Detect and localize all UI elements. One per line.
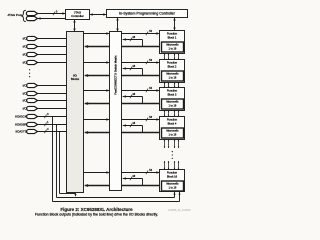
- JTAG pad TDO: [26, 16, 37, 20]
- wire: FB2 feedback to Switch Matrix (18): [142, 69, 144, 76]
- wire: GSR bottom wrap to Function Block 16: [57, 197, 175, 199]
- macrocells of FB4: [162, 128, 184, 138]
- svg-text:FastCONNECT II Switch Matrix: FastCONNECT II Switch Matrix: [113, 55, 117, 95]
- wire: FB3 feedback to Switch Matrix (18): [142, 97, 144, 104]
- function block FB1: [160, 31, 185, 54]
- svg-text:1 to 18: 1 to 18: [169, 186, 177, 190]
- wire: FB4 feedback to Switch Matrix (18): [142, 126, 144, 133]
- svg-text:Macrocells: Macrocells: [166, 72, 179, 76]
- wire: programming bus verticals gap 3: [164, 111, 166, 117]
- svg-text:Function: Function: [167, 61, 178, 65]
- svg-text:Controller: Controller: [71, 14, 84, 18]
- wire: I/O/GCK to I/O Blocks: [38, 116, 67, 118]
- svg-text:Block 3: Block 3: [168, 92, 177, 96]
- svg-text:Block 1: Block 1: [168, 35, 177, 39]
- macrocells of FB2: [162, 71, 184, 81]
- svg-text:In-System Programming Controll: In-System Programming Controller: [119, 12, 176, 16]
- wire: FB1 feedback to Switch Matrix (18): [142, 40, 144, 47]
- svg-text:Block 4: Block 4: [168, 121, 177, 125]
- ellipsis between I/O pin groups: [29, 69, 30, 70]
- wire: I/O/GSR vertical drop: [56, 125, 58, 198]
- wire: FB2 bold output to I/O Blocks: [122, 75, 160, 77]
- svg-text:I/O/GTS: I/O/GTS: [15, 130, 26, 134]
- wire: JTAG Controller to ISP Controller (bidirectional): [90, 14, 107, 16]
- macrocells of FB16: [162, 181, 184, 191]
- svg-text:Function: Function: [167, 118, 178, 122]
- wire: ISP Controller to Switch Matrix (bidirectional): [117, 18, 119, 32]
- svg-text:I/O/GCK: I/O/GCK: [15, 115, 28, 119]
- wire: programming bus verticals gap 4: [164, 140, 166, 149]
- wire: TDO from JTAG Controller to pad: [37, 18, 65, 20]
- wire: programming bus verticals gap 2: [164, 83, 166, 88]
- svg-text:1 to 18: 1 to 18: [169, 76, 177, 80]
- wire: programming bus verticals gap 1: [164, 54, 166, 60]
- svg-text:Blocks: Blocks: [71, 77, 80, 81]
- FastCONNECT II Switch Matrix: [110, 32, 122, 191]
- wire: FB1 bold output to I/O Blocks: [122, 46, 160, 48]
- macrocells of FB1: [162, 42, 184, 52]
- svg-text:Function: Function: [167, 171, 178, 175]
- svg-text:1 to 18: 1 to 18: [169, 133, 177, 137]
- wire: I/O/GTS vertical drop: [59, 132, 61, 194]
- wire: GCK bottom wrap to Function Block 16: [53, 201, 180, 203]
- macrocells of FB3: [162, 99, 184, 109]
- wire: I/O Blocks to Switch Matrix (FB3 row): [84, 90, 110, 92]
- svg-text:I/O/GSR: I/O/GSR: [15, 123, 27, 127]
- function block FB2: [160, 60, 185, 83]
- svg-text:Macrocells: Macrocells: [166, 100, 179, 104]
- wire: FB16 bold output to I/O Blocks: [122, 185, 160, 187]
- wire: I/O/GCK vertical drop: [52, 117, 54, 202]
- wire: Switch Matrix to FB1 (54): [122, 33, 160, 35]
- svg-text:Macrocells: Macrocells: [166, 182, 179, 186]
- JTAG pad TCK/TMS/TDI: [26, 11, 37, 15]
- svg-text:Function: Function: [167, 32, 178, 36]
- wire: JTAG pads to JTAG Controller (3): [37, 13, 65, 15]
- wire: GTS bottom wrap to I/O Blocks: [60, 193, 76, 195]
- JTAG Controller U1: [66, 10, 90, 20]
- svg-text:Function Block outputs (indica: Function Block outputs (indicated by the…: [35, 213, 158, 217]
- wire: FB4 bold output to I/O Blocks: [122, 132, 160, 134]
- wire: programming bus verticals gap 5: [164, 161, 166, 170]
- wire: JTAG Controller to I/O Blocks (bidirectional): [74, 20, 76, 32]
- JTAG Port brace: [22, 10, 26, 21]
- wire: I/O Blocks to Switch Matrix (FB2 row): [84, 62, 110, 64]
- function block FB3: [160, 88, 185, 111]
- svg-text:DS055_02_110300: DS055_02_110300: [168, 208, 191, 212]
- svg-text:Function: Function: [167, 89, 178, 93]
- wire: I/O/GSR to I/O Blocks: [38, 124, 67, 126]
- wire: Switch Matrix to FB4 (54): [122, 119, 160, 121]
- svg-text:Block 16: Block 16: [167, 174, 178, 178]
- wire: FB16 feedback to Switch Matrix (18): [142, 179, 144, 186]
- wire: I/O Blocks to Switch Matrix (FB1 row): [84, 33, 110, 35]
- svg-text:Macrocells: Macrocells: [166, 129, 179, 133]
- wire: FB3 bold output to I/O Blocks: [122, 103, 160, 105]
- wire: I/O Blocks to Switch Matrix (FB4 row): [84, 119, 110, 121]
- svg-text:1 to 18: 1 to 18: [169, 47, 177, 51]
- svg-text:Figure 2: XC95288XL Architect: Figure 2: XC95288XL Architecture: [60, 207, 133, 212]
- wire: Switch Matrix to FB2 (54): [122, 62, 160, 64]
- ellipsis between FB4 and FB16: [172, 151, 173, 152]
- svg-text:JTAG Port: JTAG Port: [7, 13, 21, 17]
- In-System Programming Controller U2: [107, 10, 188, 18]
- svg-text:Macrocells: Macrocells: [166, 43, 179, 47]
- function block FB4: [160, 117, 185, 140]
- svg-text:Block 2: Block 2: [168, 64, 177, 68]
- svg-text:1 to 18: 1 to 18: [169, 104, 177, 108]
- wire: I/O/GTS to I/O Blocks: [38, 131, 67, 133]
- function block FB16: [160, 170, 185, 192]
- I/O Blocks: [67, 32, 84, 193]
- wire: I/O Blocks to Switch Matrix (FB16 row): [84, 172, 110, 174]
- wire: Switch Matrix to FB16 (54): [122, 172, 160, 174]
- wire: ISP Controller to Function Block 1 (bidirectional): [174, 18, 176, 31]
- wire: Switch Matrix to FB3 (54): [122, 90, 160, 92]
